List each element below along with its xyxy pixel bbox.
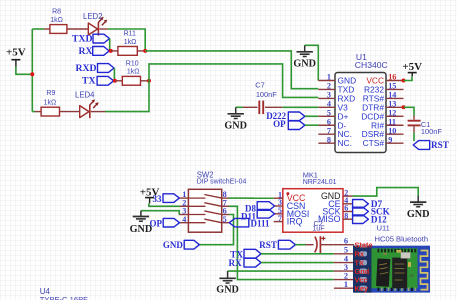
svg-text:4: 4 [182,215,186,224]
svg-text:R8: R8 [52,9,61,16]
svg-text:HC05 Bluetooth: HC05 Bluetooth [375,234,429,243]
svg-text:15: 15 [388,82,396,91]
svg-text:RST: RST [259,240,277,250]
svg-text:1: 1 [344,280,348,289]
svg-text:R10: R10 [126,61,139,68]
svg-text:GND: GND [293,59,316,70]
svg-text:7: 7 [278,214,282,223]
svg-text:16: 16 [388,73,396,82]
svg-text:8: 8 [327,135,331,144]
svg-text:NRF24L01: NRF24L01 [303,179,337,186]
svg-text:3: 3 [327,91,331,100]
svg-text:6: 6 [327,117,331,126]
svg-text:GND: GND [163,240,184,250]
svg-text:RST: RST [431,140,449,150]
svg-text:9: 9 [388,135,392,144]
svg-text:+5V: +5V [402,61,422,73]
svg-text:2: 2 [327,82,331,91]
svg-text:Key: Key [355,284,369,293]
svg-text:11: 11 [388,117,396,126]
svg-text:12: 12 [388,109,396,118]
svg-text:TYPE-C 16PF: TYPE-C 16PF [40,295,88,300]
svg-text:1kΩ: 1kΩ [127,69,140,76]
svg-text:1kΩ: 1kΩ [50,17,63,24]
svg-text:D11: D11 [241,212,257,222]
svg-text:CH340C: CH340C [355,60,388,70]
svg-text:100nF: 100nF [421,127,442,136]
svg-text:14: 14 [388,91,396,100]
svg-text:4: 4 [327,100,331,109]
svg-text:CTS#: CTS# [363,138,385,148]
svg-text:100nF: 100nF [256,90,277,99]
svg-text:DIP switchEI-04: DIP switchEI-04 [197,179,247,186]
svg-text:33: 33 [153,194,163,204]
svg-text:R11: R11 [124,31,136,38]
svg-text:RX: RX [79,46,93,57]
svg-text:OP: OP [150,218,163,228]
svg-text:LED4: LED4 [75,91,95,100]
svg-text:1kΩ: 1kΩ [44,100,57,107]
svg-text:C7: C7 [255,80,264,89]
svg-text:GND: GND [407,209,430,220]
svg-text:8: 8 [344,211,348,220]
svg-text:OP: OP [273,119,286,129]
svg-text:IRQ: IRQ [287,217,303,227]
svg-text:GND: GND [224,121,247,132]
svg-text:GND: GND [216,285,239,296]
svg-text:State: State [355,240,373,249]
svg-text:10: 10 [388,126,396,135]
svg-text:R9: R9 [46,90,55,97]
svg-text:5: 5 [344,246,348,255]
svg-text:Rx: Rx [355,250,365,259]
svg-text:NC.: NC. [338,138,352,148]
svg-text:1kΩ: 1kΩ [124,39,137,46]
svg-text:5: 5 [327,109,331,118]
svg-text:1uF: 1uF [312,224,325,233]
svg-text:1: 1 [327,73,331,82]
svg-text:+5V: +5V [6,46,26,58]
svg-text:6: 6 [344,237,348,246]
svg-text:TXD: TXD [72,33,92,44]
svg-text:RX: RX [229,258,243,268]
svg-text:TX: TX [82,76,95,87]
svg-text:LED2: LED2 [83,12,103,21]
svg-text:5: 5 [223,215,227,224]
svg-text:RXD: RXD [76,63,97,74]
svg-text:13: 13 [388,100,396,109]
svg-text:7: 7 [327,126,331,135]
svg-text:U11: U11 [377,224,390,233]
